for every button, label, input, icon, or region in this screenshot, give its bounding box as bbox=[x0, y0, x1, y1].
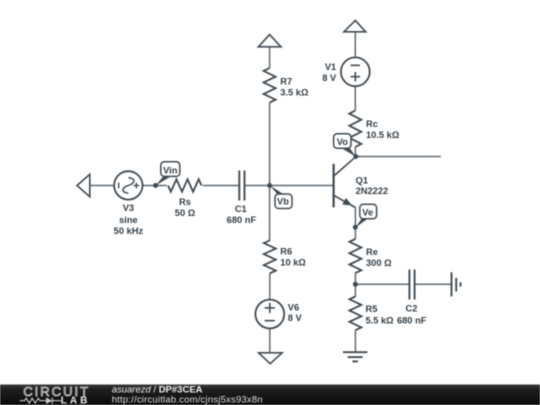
svg-text:C2: C2 bbox=[406, 304, 418, 314]
wire Rc to node Vo bbox=[354, 147, 356, 157]
svg-text:sine: sine bbox=[119, 215, 138, 225]
svg-text:5.5 kΩ: 5.5 kΩ bbox=[366, 315, 395, 325]
node Vo dot bbox=[353, 154, 358, 159]
wire V3 to Rs bbox=[143, 185, 167, 187]
svg-text:50 kHz: 50 kHz bbox=[114, 226, 144, 236]
transistor Q1 base bar bbox=[333, 164, 335, 208]
capacitor C2 bbox=[409, 270, 414, 300]
node Vin dot bbox=[153, 183, 158, 188]
wire R6 to V6 bbox=[269, 273, 271, 299]
svg-text:Q1: Q1 bbox=[356, 175, 368, 185]
V1 plus sign bbox=[351, 72, 360, 81]
svg-text:10.5 kΩ: 10.5 kΩ bbox=[366, 130, 400, 140]
resistor R7 bbox=[264, 68, 276, 103]
wire R7 to R6 bbox=[269, 103, 271, 241]
transistor Q1 collector bbox=[334, 157, 356, 176]
ground triangle (V6) bbox=[259, 353, 283, 364]
V6 plus sign bbox=[265, 303, 275, 313]
transistor Q1 emitter arrow bbox=[342, 198, 352, 206]
wire Re to R5 bbox=[354, 273, 356, 297]
voltage source V3 bbox=[114, 171, 142, 199]
svg-text:Vb: Vb bbox=[277, 196, 289, 206]
resistor Rs bbox=[168, 179, 202, 192]
resistor R6 bbox=[264, 240, 276, 273]
capacitor C1 bbox=[239, 171, 244, 201]
wire V6 to ground triangle bbox=[269, 328, 271, 352]
svg-text:680 nF: 680 nF bbox=[227, 215, 257, 225]
power rail triangle (V1 top) bbox=[344, 20, 366, 31]
resistor Rc bbox=[349, 111, 361, 147]
resistor R5 bbox=[349, 297, 361, 331]
node Vo label bbox=[334, 134, 351, 148]
svg-text:Vo: Vo bbox=[337, 137, 349, 147]
wire R5 to ground bbox=[354, 330, 356, 352]
wire emitter to Re bbox=[354, 208, 356, 240]
wire C1 to Q1 base bbox=[245, 185, 334, 187]
svg-text:8 V: 8 V bbox=[322, 73, 337, 83]
node Vin label tail bbox=[156, 177, 171, 186]
svg-text:LAB: LAB bbox=[61, 395, 91, 405]
wire VCC triangle to V1 bbox=[354, 32, 356, 58]
svg-text:Vin: Vin bbox=[163, 165, 178, 175]
wire Rs to C1 bbox=[203, 185, 240, 187]
node Ve dot bbox=[353, 225, 358, 230]
svg-text:V6: V6 bbox=[288, 302, 299, 312]
wire V1 to Rc bbox=[354, 86, 356, 110]
node Vb label tail bbox=[270, 185, 284, 194]
svg-text:Ve: Ve bbox=[362, 208, 373, 218]
input port arrow bbox=[77, 174, 90, 196]
resistor Re bbox=[349, 239, 361, 273]
ground (right of C2, rotated) bbox=[452, 272, 461, 296]
svg-text:2N2222: 2N2222 bbox=[356, 186, 389, 196]
ground (under R5) bbox=[343, 352, 368, 361]
svg-text:R7: R7 bbox=[280, 76, 292, 86]
V3 plus sign bbox=[134, 183, 140, 189]
svg-text:Rs: Rs bbox=[179, 197, 191, 207]
node Ve label tail bbox=[356, 219, 368, 228]
svg-text:C1: C1 bbox=[235, 204, 247, 214]
svg-text:Rc: Rc bbox=[366, 119, 378, 129]
V1 minus sign bbox=[351, 64, 360, 66]
svg-text:Re: Re bbox=[366, 247, 378, 257]
wire node to C2 bbox=[355, 283, 409, 285]
node Ve label bbox=[360, 204, 377, 219]
node Vin label bbox=[161, 162, 180, 177]
svg-text:V1: V1 bbox=[325, 62, 336, 72]
V3 minus sign bbox=[118, 183, 120, 189]
svg-text:680 nF: 680 nF bbox=[397, 315, 427, 325]
wire node Vo to output bbox=[356, 156, 441, 158]
V6 minus sign bbox=[265, 320, 275, 322]
svg-text:V3: V3 bbox=[123, 203, 134, 213]
svg-text:http://circuitlab.com/cjnsj5xs: http://circuitlab.com/cjnsj5xs93x8n bbox=[112, 394, 263, 405]
voltage source V6 bbox=[255, 300, 284, 329]
svg-text:3.5 kΩ: 3.5 kΩ bbox=[280, 88, 309, 98]
svg-text:R5: R5 bbox=[366, 304, 378, 314]
svg-text:8 V: 8 V bbox=[288, 313, 303, 323]
wire input port to V3 bbox=[91, 185, 115, 187]
svg-text:50 Ω: 50 Ω bbox=[175, 208, 196, 218]
node junction dot bbox=[353, 282, 358, 287]
voltage source V1 bbox=[341, 57, 370, 86]
node Vb dot bbox=[267, 183, 272, 188]
svg-text:10 kΩ: 10 kΩ bbox=[280, 257, 306, 267]
transistor Q1 emitter bbox=[334, 195, 355, 207]
CircuitLab logo squiggle bbox=[20, 398, 61, 404]
wire C2 to ground bbox=[415, 283, 452, 285]
power rail triangle (R7 top) bbox=[258, 35, 281, 47]
svg-text:R6: R6 bbox=[280, 247, 292, 257]
node Vo label tail bbox=[342, 148, 356, 156]
node Vb label bbox=[275, 194, 292, 209]
wire VCC triangle to R7 bbox=[269, 47, 271, 68]
svg-text:300 Ω: 300 Ω bbox=[366, 258, 392, 268]
